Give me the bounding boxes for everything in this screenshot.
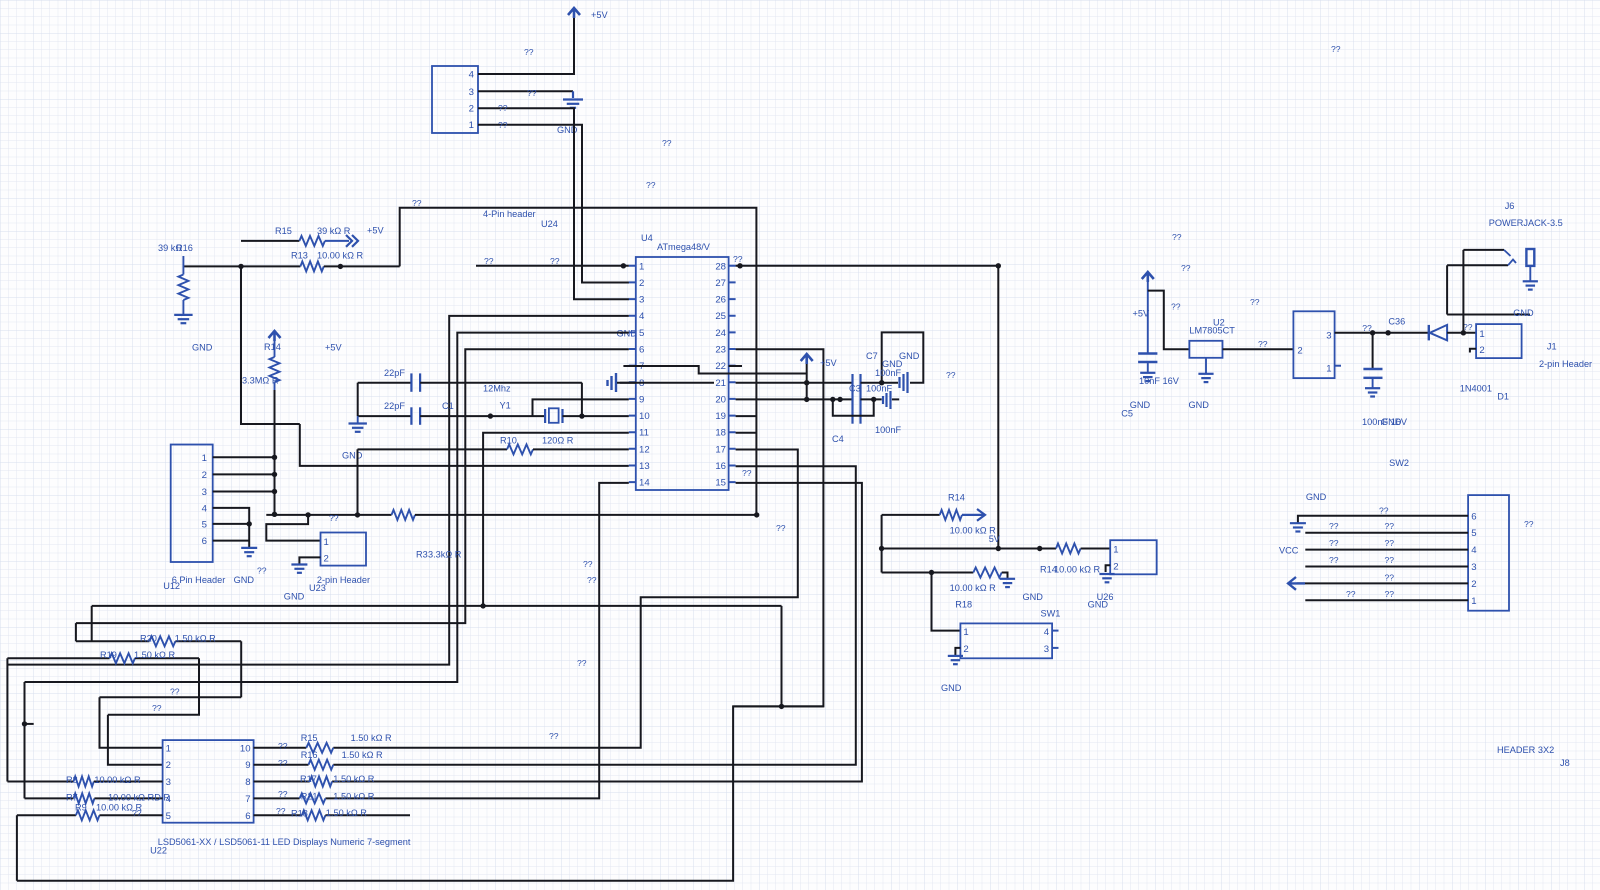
J6 pin1 stub [1335, 365, 1341, 367]
wire SW2 pin1 [1305, 599, 1468, 601]
svg-text:+5V: +5V [820, 358, 837, 368]
wire U12 pin3 [213, 491, 275, 493]
svg-text:1: 1 [166, 743, 171, 754]
svg-text:??: ?? [484, 256, 494, 266]
wire U2 to ground [1205, 358, 1207, 374]
svg-text:23: 23 [715, 345, 726, 356]
svg-text:4-Pin header: 4-Pin header [483, 209, 536, 219]
wire U23 pin2 to ground [299, 557, 320, 564]
wire U24 pin3 to ground [478, 90, 573, 92]
svg-text:??: ?? [1385, 521, 1395, 531]
wire U24 pin2 to U4 pin3 [478, 108, 629, 299]
resistor R20 1.5k [76, 640, 149, 642]
svg-text:??: ?? [524, 47, 534, 57]
svg-text:10: 10 [240, 743, 251, 754]
wire 5V row to U26 [882, 548, 1056, 550]
capacitor C4 right glyph [883, 391, 891, 409]
wire snake to U23 pin1 [266, 515, 320, 541]
svg-text:2: 2 [1471, 579, 1476, 590]
wire left rail x24 down [24, 682, 26, 798]
svg-text:??: ?? [276, 806, 286, 816]
resistor R15 [241, 240, 299, 242]
wire U4 pin9 to crystal [533, 399, 629, 416]
display U22 LSD5061 body [163, 740, 254, 823]
svg-text:3: 3 [1044, 644, 1049, 655]
svg-text:27: 27 [715, 278, 726, 289]
wire long net y697 [100, 696, 242, 698]
wire U12 pin2 [213, 473, 275, 475]
ground under R18 [1000, 578, 1015, 580]
ground under U26 [1099, 573, 1114, 575]
svg-text:GND: GND [941, 683, 962, 693]
svg-text:??: ?? [733, 254, 743, 264]
svg-text:GND: GND [342, 451, 363, 461]
resistor R15b 1.5k [254, 747, 307, 749]
svg-text:14: 14 [639, 478, 650, 489]
svg-text:C1: C1 [442, 401, 454, 411]
svg-text:SW1: SW1 [1041, 609, 1061, 619]
svg-text:4: 4 [1044, 627, 1050, 638]
svg-text:R18: R18 [291, 809, 308, 819]
resistor R18b 1.5k [254, 814, 302, 816]
svg-text:R10: R10 [500, 436, 517, 446]
svg-text:4: 4 [1471, 545, 1477, 556]
wire SW2 pin4 VCC [1305, 549, 1468, 551]
svg-text:C3: C3 [849, 384, 861, 394]
svg-text:R7: R7 [66, 793, 78, 803]
jack barrel [1526, 249, 1534, 266]
svg-text:18: 18 [715, 428, 726, 439]
svg-text:2: 2 [469, 104, 474, 115]
resistor R14b 10k to U26 [1056, 544, 1081, 554]
svg-text:??: ?? [498, 120, 508, 130]
svg-text:??: ?? [1362, 323, 1372, 333]
wire pin23 branch y706 [733, 705, 824, 707]
svg-text:??: ?? [1329, 521, 1339, 531]
svg-text:20: 20 [715, 394, 726, 405]
svg-text:U23: U23 [309, 583, 326, 593]
svg-text:C36: C36 [1388, 317, 1405, 327]
connector SW2 J8 body [1468, 495, 1509, 611]
svg-text:GND: GND [284, 592, 305, 602]
ground under jack [1529, 266, 1531, 281]
svg-text:2: 2 [1479, 345, 1484, 356]
svg-text:R15: R15 [275, 226, 292, 236]
svg-text:HEADER 3X2: HEADER 3X2 [1497, 745, 1554, 755]
svg-text:1.50 kΩ R: 1.50 kΩ R [351, 733, 392, 743]
svg-text:3: 3 [639, 295, 644, 306]
svg-text:10.00 kΩ RD R: 10.00 kΩ RD R [108, 793, 170, 803]
wire U4 pin21 row [736, 382, 853, 384]
svg-text:??: ?? [1385, 538, 1395, 548]
connector U24 4-pin header body [432, 66, 478, 133]
svg-text:9: 9 [245, 760, 250, 771]
svg-text:8: 8 [245, 777, 250, 788]
resistor R8 10k [7, 781, 73, 783]
svg-text:2: 2 [963, 644, 968, 655]
wire long net y606 [92, 605, 782, 607]
svg-text:1.50 kΩ R: 1.50 kΩ R [333, 792, 374, 802]
wire C4 right to glyph [861, 398, 882, 400]
wire GND vertical to R3 row [357, 449, 359, 515]
svg-text:GND: GND [1088, 600, 1109, 610]
ground near U24 [572, 91, 574, 98]
svg-text:3: 3 [1326, 331, 1331, 342]
wire dot to C7 glyph [882, 382, 898, 384]
svg-text:R13: R13 [291, 251, 308, 261]
svg-text:R19: R19 [100, 650, 117, 660]
svg-text:10.00 kΩ R: 10.00 kΩ R [317, 251, 364, 261]
resistor R10 120ohm [358, 448, 508, 450]
J1 pin2 stub [1470, 349, 1476, 353]
svg-text:6: 6 [245, 811, 250, 822]
svg-text:11: 11 [639, 428, 649, 439]
svg-text:1.50 kΩ R: 1.50 kΩ R [134, 650, 175, 660]
wire U24 pin1 to U4 pin2 [478, 125, 629, 283]
svg-text:2: 2 [166, 760, 171, 771]
svg-text:??: ?? [498, 103, 508, 113]
svg-text:??: ?? [132, 808, 142, 818]
wire R13 junction down [241, 266, 300, 424]
svg-text:1: 1 [639, 261, 644, 272]
svg-text:1: 1 [1113, 545, 1118, 556]
svg-text:2: 2 [1113, 562, 1118, 573]
wire U12 pin4-5-6 to ground [213, 508, 250, 548]
svg-text:R18: R18 [955, 600, 972, 610]
svg-text:R8: R8 [66, 775, 78, 785]
svg-text:6: 6 [202, 536, 207, 547]
wire U4 pin11 down [483, 433, 629, 606]
svg-text:??: ?? [1463, 322, 1473, 332]
wire R20 left up to pin6 net [75, 623, 77, 641]
connector J6 jack body [1293, 311, 1334, 378]
wire R20 right down to display pin1 net [240, 641, 242, 697]
svg-text:??: ?? [1250, 297, 1260, 307]
svg-text:1: 1 [963, 627, 968, 638]
svg-text:R14: R14 [948, 493, 965, 503]
wire pin8 glyph [617, 382, 636, 384]
svg-text:2: 2 [1297, 346, 1302, 357]
svg-text:GND: GND [1189, 400, 1210, 410]
svg-text:??: ?? [1172, 232, 1182, 242]
wire U4 pin6 long [76, 349, 629, 623]
svg-text:7: 7 [245, 794, 250, 805]
U4 pin stubs left [629, 266, 636, 482]
resistor R21 1.5k [254, 797, 300, 799]
ground under C5 [1140, 372, 1155, 374]
svg-text:100nF: 100nF [875, 425, 901, 435]
svg-text:??: ?? [587, 575, 597, 585]
svg-text:5: 5 [202, 519, 207, 530]
ground under SW1 [948, 655, 963, 657]
svg-text:??: ?? [550, 256, 560, 266]
svg-text:R14: R14 [264, 342, 281, 352]
svg-text:??: ?? [662, 138, 672, 148]
svg-text:??: ?? [1346, 589, 1356, 599]
svg-text:R16: R16 [176, 243, 193, 253]
svg-text:LM7805CT: LM7805CT [1189, 326, 1235, 336]
svg-text:GND: GND [234, 575, 255, 585]
wire inside U4 pin8 row [620, 382, 714, 384]
svg-text:9: 9 [639, 394, 644, 405]
svg-text:100nF: 100nF [875, 368, 901, 378]
svg-text:22: 22 [715, 361, 726, 372]
wire J6 pin3 to C36/diode [1335, 332, 1429, 334]
svg-text:??: ?? [1329, 538, 1339, 548]
svg-text:2: 2 [639, 278, 644, 289]
wire crystal right to 22pF upper [581, 383, 583, 416]
svg-text:J6: J6 [1505, 201, 1515, 211]
svg-text:22pF: 22pF [384, 401, 405, 411]
svg-text:1: 1 [202, 453, 207, 464]
svg-text:1.50 kΩ R: 1.50 kΩ R [342, 750, 383, 760]
svg-text:??: ?? [170, 687, 180, 697]
svg-text:1.50 kΩ R: 1.50 kΩ R [326, 808, 367, 818]
wire to SW1 pin1 [932, 573, 961, 631]
svg-text:10: 10 [639, 411, 650, 422]
clock glyph at U4 pin8 [608, 373, 617, 392]
wire display pin2 net y715 [108, 658, 199, 715]
svg-text:3.3kΩ R: 3.3kΩ R [428, 550, 462, 560]
svg-text:U22: U22 [150, 846, 167, 856]
connector U12 6 Pin Header body [171, 445, 213, 563]
wire U4 pin20 row [736, 398, 853, 400]
ground under C36 [1365, 387, 1380, 389]
wire R9 left down to bottom bus [16, 815, 18, 880]
svg-text:C4: C4 [832, 434, 844, 444]
ground SW2 [1290, 522, 1306, 524]
svg-text:1: 1 [1479, 329, 1484, 340]
svg-text:10.00 kΩ R: 10.00 kΩ R [94, 775, 141, 785]
resistor R7 10k [25, 797, 74, 799]
svg-text:??: ?? [412, 198, 422, 208]
svg-text:GND: GND [1513, 308, 1534, 318]
wire U4 pin28 to 5V net vertical [736, 266, 999, 549]
svg-text:5: 5 [1471, 528, 1476, 539]
wire vertical x781 between y606 and y706 [781, 606, 783, 707]
svg-text:25: 25 [715, 311, 726, 322]
svg-text:6: 6 [639, 345, 644, 356]
wire R14 down to header U12 pins [274, 390, 276, 514]
resistor R14 10k with arrow [882, 514, 940, 516]
IC U4 ATmega48/V body [636, 257, 729, 490]
wire display pin2 net vertical [108, 715, 163, 765]
svg-text:28: 28 [715, 261, 726, 272]
svg-text:4: 4 [469, 70, 475, 81]
SW1 pin stubs right [1052, 630, 1058, 632]
ground under U23 [291, 563, 307, 565]
svg-text:100nF: 100nF [866, 384, 892, 394]
svg-text:??: ?? [1385, 573, 1395, 583]
capacitor C3/C4 plates [851, 374, 853, 424]
ground under 22pF caps [357, 416, 359, 423]
svg-text:??: ?? [329, 513, 339, 523]
ground under R16 [174, 314, 192, 316]
svg-text:12: 12 [639, 444, 650, 455]
svg-text:??: ?? [776, 523, 786, 533]
svg-text:??: ?? [257, 566, 267, 576]
wire U12 pin1 [213, 456, 275, 458]
svg-text:5: 5 [166, 811, 171, 822]
svg-text:??: ?? [583, 559, 593, 569]
svg-text:6: 6 [1471, 511, 1476, 522]
capacitor C7 glyph [900, 372, 908, 393]
svg-text:??: ?? [1385, 589, 1395, 599]
resistor R19 1.5k [7, 657, 109, 659]
svg-text:5V: 5V [989, 534, 1001, 544]
svg-text:??: ?? [549, 731, 559, 741]
svg-text:10.00 kΩ R: 10.00 kΩ R [950, 583, 997, 593]
wire U2 out to J6 jack box [1223, 348, 1294, 350]
connector J1 body [1476, 324, 1522, 358]
svg-text:J8: J8 [1560, 758, 1570, 768]
wire C7 loop [882, 332, 924, 382]
svg-text:39 kΩ R: 39 kΩ R [317, 226, 351, 236]
svg-text:+5V: +5V [325, 343, 342, 353]
svg-text:LSD5061-XX / LSD5061-11 LED Di: LSD5061-XX / LSD5061-11 LED Displays Num… [158, 837, 411, 847]
svg-text:2: 2 [324, 554, 329, 565]
svg-text:R16: R16 [301, 750, 318, 760]
wire U26 pin2 to ground [1106, 565, 1111, 572]
svg-text:1: 1 [469, 120, 474, 131]
jack contacts [1504, 250, 1516, 265]
svg-text:??: ?? [1329, 555, 1339, 565]
svg-text:??: ?? [1385, 555, 1395, 565]
svg-text:120Ω R: 120Ω R [542, 436, 574, 446]
svg-text:6 Pin Header: 6 Pin Header [172, 575, 226, 585]
svg-text:1: 1 [324, 537, 329, 548]
svg-text:VCC: VCC [1279, 546, 1299, 556]
wire U4 pin16 to display pin9 row [333, 466, 856, 765]
wire U4 pin1 row [476, 265, 629, 267]
svg-text:R9: R9 [75, 803, 87, 813]
svg-text:??: ?? [1524, 519, 1534, 529]
capacitor C36 100nF [1372, 333, 1374, 368]
svg-text:GND: GND [1306, 492, 1327, 502]
svg-text:R17: R17 [300, 774, 317, 784]
svg-text:??: ?? [1181, 263, 1191, 273]
svg-text:19: 19 [715, 411, 726, 422]
wire display pin1 net vertical [100, 697, 163, 748]
wire U4 pin7 to pin22 step [623, 366, 806, 374]
svg-text:15: 15 [715, 478, 726, 489]
svg-text:C7: C7 [866, 351, 878, 361]
wire SW2 pin2 with arrow [1297, 582, 1468, 584]
svg-text:D1: D1 [1497, 392, 1509, 402]
svg-text:SW2: SW2 [1389, 458, 1409, 468]
svg-text:R20: R20 [140, 634, 157, 644]
svg-text:1.50 kΩ R: 1.50 kΩ R [333, 774, 374, 784]
diode D1 1N4001 [1428, 325, 1430, 341]
wire +5V to U2 [1148, 291, 1190, 350]
svg-text:1.50 kΩ R: 1.50 kΩ R [175, 634, 216, 644]
svg-text:C5: C5 [1121, 409, 1133, 419]
svg-text:??: ?? [152, 703, 162, 713]
stub at x24 y724 [25, 723, 34, 725]
svg-text:3: 3 [469, 87, 474, 98]
power arrow R14 +5V [269, 331, 281, 341]
ground under U12 [241, 547, 257, 549]
svg-text:3: 3 [166, 777, 171, 788]
svg-text:3.3MΩ R: 3.3MΩ R [242, 376, 279, 386]
wire SW2 pin3 [1305, 566, 1468, 568]
wire C4 step detour [833, 399, 874, 415]
svg-text:22pF: 22pF [384, 368, 405, 378]
svg-text:4: 4 [202, 503, 208, 514]
svg-text:10nF 16V: 10nF 16V [1139, 376, 1180, 386]
svg-text:??: ?? [946, 370, 956, 380]
svg-text:2-pin Header: 2-pin Header [1539, 359, 1592, 369]
svg-text:POWERJACK-3.5: POWERJACK-3.5 [1489, 218, 1563, 228]
wire R10 net down [357, 449, 359, 515]
svg-text:R3: R3 [416, 550, 428, 560]
svg-text:R21: R21 [301, 792, 318, 802]
svg-text:??: ?? [1379, 506, 1389, 516]
wire R20 branch up to y606 net [91, 606, 93, 641]
svg-text:??: ?? [1331, 44, 1341, 54]
svg-text:GND: GND [1023, 592, 1044, 602]
svg-text:1: 1 [1471, 596, 1476, 607]
wire reset net to U4 pin13 [300, 424, 629, 466]
svg-text:GND: GND [192, 343, 213, 353]
svg-text:U4: U4 [641, 233, 653, 243]
svg-text:Y1: Y1 [500, 401, 511, 411]
svg-text:??: ?? [742, 468, 752, 478]
connector U23 2-pin header body [321, 533, 367, 566]
svg-text:+5V: +5V [367, 226, 384, 236]
svg-text:??: ?? [1258, 339, 1268, 349]
jack J6 drawing wires [1463, 249, 1504, 251]
svg-text:24: 24 [715, 328, 726, 339]
svg-text:??: ?? [577, 658, 587, 668]
wire U4 pin4 long [7, 316, 628, 665]
svg-text:??: ?? [278, 789, 288, 799]
svg-text:??: ?? [646, 180, 656, 190]
svg-text:??: ?? [278, 741, 288, 751]
power +5V C5 [1142, 272, 1154, 282]
wire 22pF common to ground [357, 383, 359, 416]
svg-text:1N4001: 1N4001 [1460, 384, 1492, 394]
resistor R17 1.5k [254, 781, 310, 783]
wire U4 pin18 stub [736, 432, 757, 434]
wire U24 pin4 to +5V [478, 18, 574, 74]
svg-text:5: 5 [639, 328, 644, 339]
wire SW2 pin5 [1305, 532, 1468, 534]
svg-text:2: 2 [202, 470, 207, 481]
svg-text:10.00 kΩ R: 10.00 kΩ R [1054, 565, 1101, 575]
svg-text:GND: GND [1381, 417, 1402, 427]
switch SW1 body [960, 623, 1052, 658]
wire U4 pin19 stub [736, 415, 757, 417]
wire U4 pin15 to display pin8 row [332, 483, 862, 782]
svg-text:??: ?? [278, 758, 288, 768]
ground under U2 [1198, 373, 1213, 375]
svg-text:ATmega48/V: ATmega48/V [657, 242, 711, 252]
power +5V top [568, 8, 580, 18]
resistor R16b 1.5k [254, 764, 309, 766]
wire SW2 pin6 to ground [1298, 516, 1468, 523]
wire +5V stem to pin20 [806, 364, 808, 399]
svg-text:16: 16 [715, 461, 726, 472]
wire U4 pin23 down to bottom bus [17, 349, 824, 880]
resistor R3 3.3k [266, 514, 391, 516]
U4 pin stubs right [729, 266, 736, 482]
wire SW1 pin2 to ground [955, 648, 960, 656]
wire C3 right to loop [861, 382, 882, 384]
wire R14 net left vertical [881, 515, 883, 573]
svg-text:3: 3 [202, 487, 207, 498]
resistor R13 [183, 265, 300, 267]
